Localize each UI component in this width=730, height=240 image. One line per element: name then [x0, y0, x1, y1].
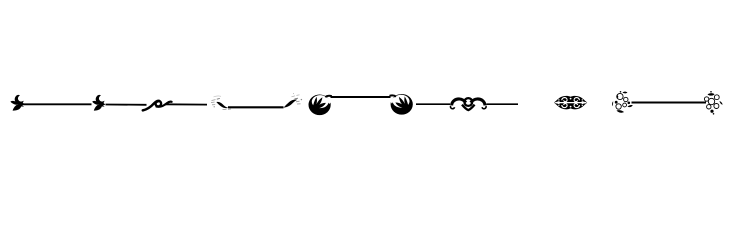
rule line 5a	[416, 103, 450, 105]
rule line 3	[228, 106, 284, 108]
rule line 6	[632, 102, 707, 104]
wave scroll ornament	[143, 101, 172, 111]
leafy ball ornament right (divider 4)	[390, 94, 413, 115]
floral cluster right (divider 6)	[704, 91, 722, 115]
floral cluster left (divider 6)	[612, 91, 633, 113]
rule line 1	[24, 103, 92, 105]
sketch flourish right (divider 3 right end)	[284, 93, 303, 108]
leaf ornament A1 (left end of divider 1)	[10, 95, 25, 111]
rule line 5b	[487, 103, 519, 105]
leaf ornament A2 (between line 1 and line 2)	[92, 95, 105, 111]
moustache scroll ornament (divider 5 center)	[450, 98, 486, 110]
rule line 2a	[106, 104, 147, 106]
rule line 4 (between balls)	[331, 96, 391, 98]
leafy ball ornament left (divider 4)	[309, 95, 332, 116]
rule line 2b	[165, 103, 208, 105]
sketch flourish left (divider 3 left end)	[211, 96, 231, 110]
cartouche ornament	[554, 96, 587, 110]
